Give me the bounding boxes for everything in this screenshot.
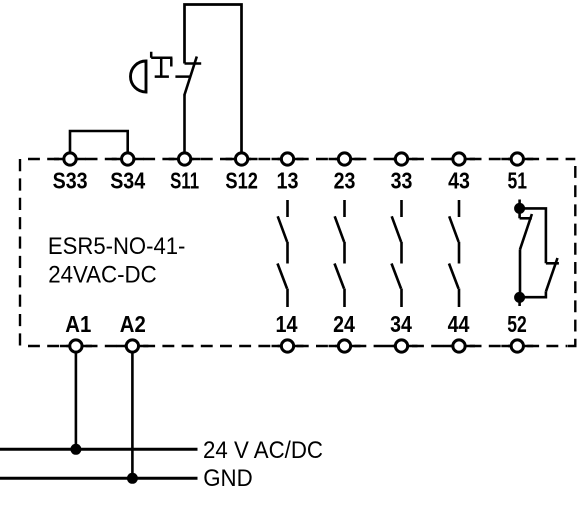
NO contact 33-34 <box>392 200 402 307</box>
svg-text:44: 44 <box>448 311 470 337</box>
wire A1 to supply <box>75 346 78 449</box>
terminal 13 <box>281 153 293 165</box>
NO contact 13-14 <box>278 200 288 307</box>
terminal A1 <box>70 340 82 352</box>
NC contact 51-52 right branch wire <box>520 208 546 263</box>
svg-text:A2: A2 <box>120 311 146 337</box>
terminal lead 14 <box>272 345 304 348</box>
wire A2 to ground <box>131 346 134 478</box>
relay module dashed outline right edge <box>574 166 576 340</box>
relay module dashed outline bottom edge <box>28 345 567 347</box>
svg-text:52: 52 <box>507 311 527 337</box>
NC contact 51-52 upper stub <box>518 200 521 219</box>
NC contact 51-52 right lower wire <box>520 291 546 297</box>
terminal 14 <box>281 340 293 352</box>
svg-text:S11: S11 <box>170 168 199 194</box>
svg-text:24: 24 <box>333 311 355 337</box>
terminal 33 <box>395 153 407 165</box>
svg-text:S33: S33 <box>53 168 88 194</box>
terminal lead A2 <box>116 345 148 348</box>
svg-text:43: 43 <box>448 168 470 194</box>
junction dot 51 top <box>514 203 525 214</box>
wire jumper S33-S34 <box>70 131 128 159</box>
terminal 24 <box>338 340 350 352</box>
NC contact 51-52 lower stub <box>518 297 521 306</box>
terminal 52 <box>511 340 523 352</box>
emergency stop mushroom head <box>131 61 147 92</box>
terminal lead 43 <box>443 158 475 161</box>
terminal S33 <box>64 153 76 165</box>
terminal lead 51 <box>501 158 533 161</box>
svg-text:51: 51 <box>508 168 528 194</box>
terminal lead 24 <box>329 345 361 348</box>
svg-text:GND: GND <box>203 465 253 492</box>
terminal 51 <box>511 153 523 165</box>
junction dot A2 on GND rail <box>127 473 138 484</box>
relay module outline bottom-right corner <box>567 339 575 346</box>
emergency stop actuator T <box>151 52 172 77</box>
terminal A2 <box>126 340 138 352</box>
supply rail 24V <box>0 448 198 451</box>
terminal lead A1 <box>60 345 92 348</box>
terminal lead 23 <box>329 158 361 161</box>
ground rail GND <box>0 477 198 480</box>
svg-text:13: 13 <box>277 168 299 194</box>
NC contact S11 blade <box>184 57 197 96</box>
terminal S34 <box>122 153 134 165</box>
NC contact 51-52 right stop tick <box>546 262 559 265</box>
NC contact 51-52 right blade <box>546 258 558 291</box>
terminal lead S33 <box>54 158 86 161</box>
terminal 23 <box>338 153 350 165</box>
svg-text:S12: S12 <box>225 168 258 194</box>
svg-text:24 V AC/DC: 24 V AC/DC <box>203 437 323 464</box>
terminal S12 <box>235 153 247 165</box>
wire top loop S11-S12 <box>185 5 242 160</box>
NC contact S11 stop tick <box>185 62 202 65</box>
svg-text:ESR5-NO-41-: ESR5-NO-41- <box>48 233 186 260</box>
svg-text:14: 14 <box>276 311 298 337</box>
relay module dashed outline left edge <box>19 159 21 346</box>
terminal lead 13 <box>272 158 304 161</box>
NC contact 51-52 left lower wire <box>519 249 522 297</box>
terminal lead S34 <box>112 158 144 161</box>
relay module dashed outline top edge <box>28 158 575 160</box>
terminal 44 <box>453 340 465 352</box>
mechanical link dashes <box>155 75 191 78</box>
NC contact 51-52 left stop tick <box>520 217 532 220</box>
terminal S11 <box>178 153 190 165</box>
NO contact 43-44 <box>449 200 459 307</box>
svg-text:23: 23 <box>334 168 356 194</box>
terminal lead 52 <box>501 345 533 348</box>
svg-text:33: 33 <box>391 168 413 194</box>
svg-text:A1: A1 <box>65 311 91 337</box>
terminal 34 <box>395 340 407 352</box>
terminal lead 33 <box>386 158 418 161</box>
wire S11 contact to terminal <box>183 95 186 159</box>
terminal 43 <box>453 153 465 165</box>
junction dot A1 on 24V rail <box>70 444 81 455</box>
NO contact 23-24 <box>335 200 345 307</box>
junction dot 52 bottom <box>514 292 525 303</box>
svg-text:34: 34 <box>390 311 412 337</box>
terminal lead S11 <box>169 158 201 161</box>
terminal lead S12 <box>226 158 258 161</box>
terminal lead 44 <box>443 345 475 348</box>
svg-text:S34: S34 <box>110 168 145 194</box>
NC contact 51-52 left blade <box>520 214 532 249</box>
svg-text:24VAC-DC: 24VAC-DC <box>48 261 157 288</box>
terminal lead 34 <box>386 345 418 348</box>
